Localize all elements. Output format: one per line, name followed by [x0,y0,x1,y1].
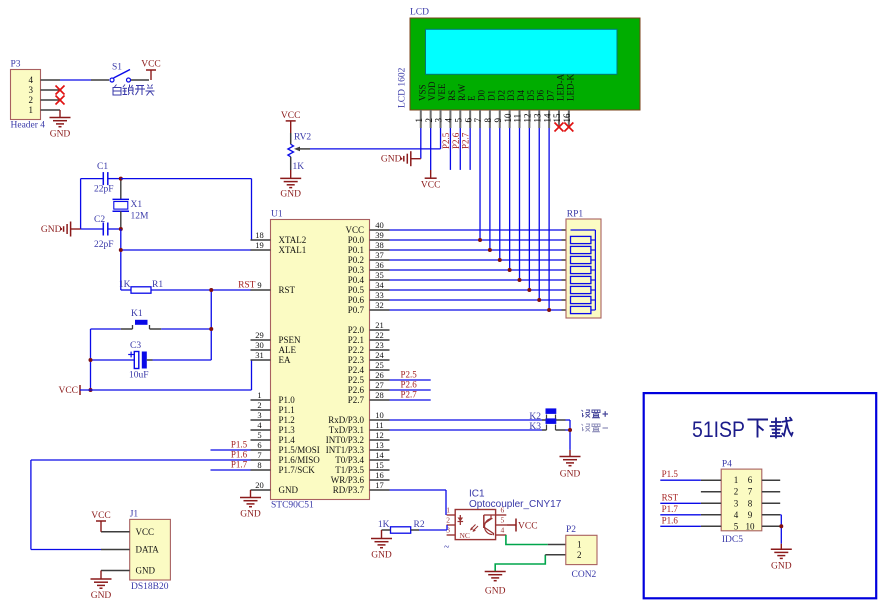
svg-text:K1: K1 [131,309,143,319]
svg-text:P2.0: P2.0 [348,325,365,335]
svg-text:39: 39 [375,230,384,240]
svg-text:13: 13 [375,440,384,450]
svg-text:WR/P3.6: WR/P3.6 [331,475,365,485]
svg-text:GND: GND [91,591,112,601]
svg-text:18: 18 [255,230,264,240]
svg-text:22: 22 [375,330,384,340]
svg-text:VCC: VCC [136,527,155,537]
svg-text:26: 26 [375,370,384,380]
svg-text:GND: GND [50,130,71,140]
svg-text:VCC: VCC [421,181,441,191]
svg-text:VCC: VCC [141,60,161,70]
svg-text:IC1: IC1 [469,489,485,500]
svg-text:CON2: CON2 [572,570,597,580]
svg-text:GND: GND [771,562,792,572]
svg-text:D3: D3 [506,90,516,101]
svg-text:P1.7: P1.7 [662,504,679,514]
svg-text:P2.3: P2.3 [348,355,365,365]
svg-text:9: 9 [748,510,753,520]
svg-text:P1.7/SCK: P1.7/SCK [279,465,316,475]
svg-text:5: 5 [501,516,505,525]
svg-text:RS: RS [447,90,457,101]
svg-text:K3: K3 [529,422,541,432]
svg-text:RST: RST [662,492,679,502]
svg-text:VCC: VCC [518,522,538,532]
svg-text:12: 12 [375,430,384,440]
svg-text:34: 34 [375,280,384,290]
svg-text:4: 4 [444,118,454,123]
svg-text:LCD: LCD [410,8,429,18]
svg-text:RxD/P3.0: RxD/P3.0 [328,415,364,425]
svg-text:D1: D1 [486,90,496,101]
svg-text:6: 6 [748,475,753,485]
svg-text:PSEN: PSEN [279,335,302,345]
svg-text:20: 20 [255,480,264,490]
svg-text:J1: J1 [130,510,139,520]
svg-text:VCC: VCC [345,225,364,235]
svg-text:3: 3 [434,118,444,123]
svg-text:37: 37 [375,250,384,260]
svg-text:2: 2 [424,118,434,123]
svg-text:1K: 1K [119,280,131,290]
svg-text:K2: K2 [529,412,541,422]
svg-text:LED-K: LED-K [565,74,575,101]
svg-text:1: 1 [257,390,261,400]
svg-text:P2.6: P2.6 [451,132,461,149]
svg-text:2: 2 [29,95,34,105]
svg-text:P2.5: P2.5 [348,375,365,385]
svg-text:RV2: RV2 [294,133,311,143]
svg-text:P0.6: P0.6 [348,295,365,305]
svg-text:P1.1: P1.1 [279,405,295,415]
svg-text:P1.5/MOSI: P1.5/MOSI [279,445,320,455]
svg-text:VDD: VDD [427,81,437,101]
svg-text:22pF: 22pF [94,240,114,250]
svg-text:P1.5: P1.5 [231,439,248,449]
svg-text:P2.5: P2.5 [401,370,418,380]
svg-text:12: 12 [523,114,533,123]
svg-text:VCC: VCC [281,111,301,121]
svg-text:P0.4: P0.4 [348,275,365,285]
svg-text:9: 9 [493,118,503,123]
svg-text:25: 25 [375,360,384,370]
svg-text:P1.4: P1.4 [279,435,296,445]
svg-text:VEE: VEE [437,83,447,101]
svg-text:P1.0: P1.0 [279,395,296,405]
svg-text:29: 29 [255,330,264,340]
svg-text:30: 30 [255,340,264,350]
svg-text:D4: D4 [516,90,526,101]
svg-text:28: 28 [375,390,384,400]
svg-text:VCC: VCC [58,386,78,396]
svg-text:5: 5 [257,430,261,440]
svg-text:16: 16 [375,470,384,480]
svg-text:RP1: RP1 [567,209,584,219]
svg-text:32: 32 [375,300,384,310]
svg-text:D5: D5 [526,90,536,101]
svg-text:2: 2 [446,516,450,525]
svg-text:8: 8 [748,498,753,508]
svg-text:14: 14 [542,113,552,123]
svg-text:GND: GND [41,225,62,235]
svg-text:4: 4 [501,526,505,535]
svg-text:P0.1: P0.1 [348,245,364,255]
svg-text:R1: R1 [152,280,163,290]
svg-text:P1.5: P1.5 [662,469,679,479]
svg-text:P1.6/MISO: P1.6/MISO [279,455,321,465]
svg-text:4: 4 [734,510,739,520]
svg-text:D6: D6 [536,90,546,101]
svg-text:4: 4 [29,75,34,85]
svg-text:EA: EA [279,355,291,365]
svg-text:P2.6: P2.6 [348,385,365,395]
svg-text:GND: GND [381,155,402,165]
svg-text:5: 5 [453,118,463,123]
svg-text:35: 35 [375,270,384,280]
svg-text:6: 6 [463,118,473,123]
svg-text:INT1/P3.3: INT1/P3.3 [326,445,365,455]
svg-text:VSS: VSS [417,84,427,101]
svg-text:VCC: VCC [91,511,111,521]
svg-text:P0.7: P0.7 [348,305,365,315]
svg-text:C1: C1 [97,162,108,172]
svg-text:STC90C51: STC90C51 [271,501,314,511]
svg-text:3: 3 [29,85,34,95]
svg-text:1: 1 [414,118,424,123]
svg-text:P2.6: P2.6 [401,380,418,390]
svg-text:1: 1 [734,475,739,485]
svg-text:S1: S1 [112,63,122,73]
svg-text:1K: 1K [293,162,305,172]
svg-text:7: 7 [748,487,753,497]
svg-text:15: 15 [375,460,384,470]
svg-text:D0: D0 [477,90,487,101]
svg-text:GND: GND [371,551,392,561]
svg-text:Optocoupler_CNY17: Optocoupler_CNY17 [469,499,562,510]
svg-text:31: 31 [255,350,264,360]
svg-text:E: E [467,95,477,101]
svg-text:P2.5: P2.5 [441,132,451,149]
svg-text:23: 23 [375,340,384,350]
svg-text:6: 6 [257,440,261,450]
svg-text:2: 2 [257,400,261,410]
svg-text:7: 7 [257,450,261,460]
svg-text:1: 1 [29,105,34,115]
svg-text:LED-A: LED-A [555,74,565,101]
svg-text:R/W: R/W [457,83,467,101]
svg-text:33: 33 [375,290,384,300]
svg-text:8: 8 [257,460,261,470]
svg-text:10: 10 [746,521,756,531]
svg-text:P2.7: P2.7 [348,395,365,405]
svg-text:P2.7: P2.7 [401,390,418,400]
svg-text:NC: NC [460,531,470,540]
svg-text:19: 19 [255,240,264,250]
svg-text:D7: D7 [546,90,556,101]
svg-text:10: 10 [503,113,513,123]
svg-text:P1.6: P1.6 [231,449,248,459]
svg-text:R2: R2 [414,520,425,530]
svg-text:T0/P3.4: T0/P3.4 [335,455,364,465]
svg-text:C3: C3 [130,341,141,351]
svg-text:XTAL2: XTAL2 [279,235,307,245]
svg-text:Header 4: Header 4 [11,121,46,131]
svg-text:~: ~ [444,542,450,553]
svg-text:P0.5: P0.5 [348,285,365,295]
svg-text:DATA: DATA [136,545,160,555]
svg-text:5: 5 [734,521,739,531]
svg-text:P2: P2 [566,525,576,535]
svg-text:P3: P3 [11,60,21,70]
svg-text:P2.2: P2.2 [348,345,364,355]
svg-text:10uF: 10uF [129,371,149,381]
svg-text:GND: GND [240,510,261,520]
svg-text:13: 13 [532,113,542,123]
svg-text:27: 27 [375,380,384,390]
svg-text:D2: D2 [496,90,506,101]
svg-text:36: 36 [375,260,384,270]
svg-text:2: 2 [577,550,582,560]
svg-text:P0.0: P0.0 [348,235,365,245]
svg-text:P2.4: P2.4 [348,365,365,375]
svg-text:DS18B20: DS18B20 [131,582,169,592]
svg-text:P1.6: P1.6 [662,515,679,525]
svg-text:TxD/P3.1: TxD/P3.1 [329,425,364,435]
svg-text:3: 3 [734,498,739,508]
svg-text:X1: X1 [131,200,143,210]
svg-text:11: 11 [513,114,523,123]
svg-text:T1/P3.5: T1/P3.5 [335,465,364,475]
svg-text:8: 8 [483,118,493,123]
svg-text:15: 15 [552,113,562,123]
svg-text:7: 7 [473,118,483,123]
svg-text:P2.1: P2.1 [348,335,364,345]
svg-text:C2: C2 [94,215,105,225]
svg-text:XTAL1: XTAL1 [279,245,307,255]
svg-text:GND: GND [280,190,301,200]
svg-text:GND: GND [279,485,299,495]
svg-text:38: 38 [375,240,384,250]
svg-text:GND: GND [485,587,506,597]
svg-text:IDC5: IDC5 [722,535,743,545]
svg-text:1: 1 [446,506,450,515]
svg-text:RST: RST [279,285,296,295]
svg-text:RD/P3.7: RD/P3.7 [333,485,365,495]
svg-text:INT0/P3.2: INT0/P3.2 [326,435,364,445]
svg-text:12M: 12M [131,212,150,222]
svg-text:1: 1 [577,540,582,550]
svg-text:1K: 1K [378,520,390,530]
svg-text:LCD 1602: LCD 1602 [398,67,408,108]
svg-text:17: 17 [375,480,384,490]
svg-text:9: 9 [257,280,261,290]
svg-text:6: 6 [501,506,505,515]
svg-text:11: 11 [375,420,383,430]
svg-text:P0.2: P0.2 [348,255,364,265]
svg-text:P2.7: P2.7 [461,132,471,149]
svg-text:ALE: ALE [279,345,297,355]
svg-text:RST: RST [238,281,256,291]
svg-text:22pF: 22pF [94,185,114,195]
svg-text:P0.3: P0.3 [348,265,365,275]
svg-text:24: 24 [375,350,384,360]
svg-text:10: 10 [375,410,384,420]
svg-text:P1.3: P1.3 [279,425,296,435]
svg-text:16: 16 [562,113,572,123]
svg-text:P4: P4 [722,459,732,469]
svg-text:U1: U1 [271,210,283,220]
svg-text:P1.7: P1.7 [231,459,248,469]
svg-text:14: 14 [375,450,384,460]
svg-text:P1.2: P1.2 [279,415,295,425]
svg-text:40: 40 [375,220,384,230]
svg-text:3: 3 [257,410,261,420]
svg-text:51ISP: 51ISP [692,417,745,442]
svg-text:21: 21 [375,320,384,330]
svg-text:GND: GND [136,566,156,576]
svg-text:GND: GND [560,470,581,480]
svg-text:2: 2 [734,487,739,497]
